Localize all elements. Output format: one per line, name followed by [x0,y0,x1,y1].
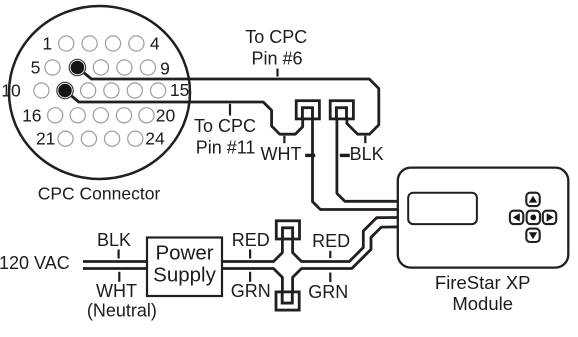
svg-text:WHT: WHT [96,281,137,301]
svg-text:To CPC: To CPC [245,27,307,47]
svg-text:Supply: Supply [153,264,216,287]
svg-text:BLK: BLK [97,230,131,250]
svg-text:GRN: GRN [231,281,271,301]
svg-text:Power: Power [155,242,213,265]
svg-text:(Neutral): (Neutral) [87,301,157,321]
svg-text:FireStar XP: FireStar XP [435,272,531,293]
svg-text:GRN: GRN [308,282,348,302]
svg-text:24: 24 [145,129,165,149]
svg-text:Pin #11: Pin #11 [196,138,256,158]
svg-text:BLK: BLK [350,144,384,164]
svg-text:4: 4 [150,34,160,54]
svg-text:120 VAC: 120 VAC [0,253,70,273]
svg-text:To CPC: To CPC [194,116,256,136]
svg-text:9: 9 [160,59,170,79]
svg-text:15: 15 [170,80,189,100]
svg-text:20: 20 [156,105,176,125]
svg-text:Pin #6: Pin #6 [251,49,302,69]
svg-text:5: 5 [31,58,41,78]
svg-text:1: 1 [42,34,52,54]
svg-text:16: 16 [22,105,41,125]
svg-text:RED: RED [232,230,270,250]
svg-text:RED: RED [312,231,350,251]
svg-text:21: 21 [36,129,55,149]
svg-text:Module: Module [452,293,513,314]
svg-text:CPC Connector: CPC Connector [38,183,161,203]
svg-text:10: 10 [1,81,21,101]
svg-text:WHT: WHT [261,144,302,164]
